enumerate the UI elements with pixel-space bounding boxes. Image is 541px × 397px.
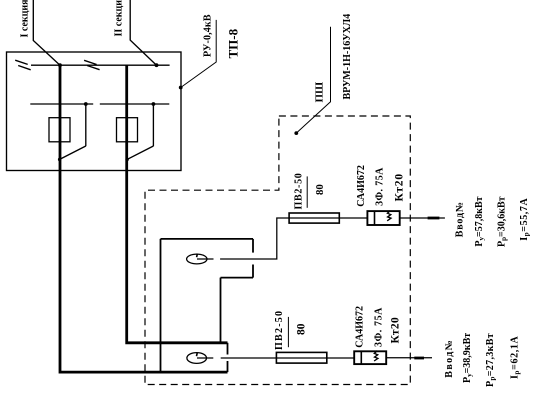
- svg-text:СА4И672: СА4И672: [355, 306, 366, 348]
- svg-text:80: 80: [296, 323, 308, 335]
- switch SA2: [127, 104, 153, 160]
- wire section II entry: [130, 0, 156, 65]
- node lower bus junction 2: [152, 102, 156, 106]
- svg-text:РУ-0,4кВ: РУ-0,4кВ: [203, 14, 214, 57]
- wire lower chain thick end: [414, 357, 424, 360]
- wire upper chain thick end: [428, 217, 440, 220]
- node bus junction 2: [155, 63, 159, 67]
- meter PI2 СА4И672: [354, 351, 386, 364]
- svg-text:Кт20: Кт20: [394, 173, 406, 201]
- node lower bus junction 1: [84, 102, 88, 106]
- label FU2 ПВ2-50/80: [274, 310, 308, 350]
- svg-text:ПШ: ПШ: [314, 82, 326, 103]
- meter PI1 СА4И672: [367, 211, 399, 225]
- fuse FU2 ПВ2-50: [276, 352, 326, 363]
- wire lower bus segment 2: [100, 103, 170, 105]
- node switch SA2 foot: [125, 158, 128, 161]
- panel ВРУ dashed boundary: [145, 116, 410, 385]
- wire feeder 2 thick: [127, 65, 228, 343]
- svg-text:Ввод№: Ввод№: [444, 339, 455, 378]
- wire bus 0,4кВ: [31, 64, 170, 66]
- wire section I entry: [33, 0, 60, 65]
- node leader dot РУ: [179, 86, 183, 90]
- label FU1 ПВ2-50/80: [294, 173, 326, 210]
- wire upper chain: [220, 218, 445, 259]
- wire lower chain: [221, 357, 432, 359]
- svg-text:ПВ2-50: ПВ2-50: [294, 173, 305, 210]
- wire feeder 1 thick: [60, 65, 228, 372]
- svg-text:ТП-8: ТП-8: [226, 28, 241, 58]
- svg-text:Кт20: Кт20: [389, 317, 401, 344]
- disconnector QS2 slashes: [84, 60, 100, 69]
- node bus junction 1: [58, 63, 62, 67]
- transformer CT1 rect: [49, 118, 70, 142]
- disconnector QS1 slashes: [15, 60, 31, 70]
- wire lower bus segment 1: [30, 103, 93, 105]
- svg-text:ПВ2-50: ПВ2-50: [274, 310, 285, 350]
- meter transformer symbol TT1 ellipse: [187, 254, 214, 264]
- svg-text:I секция: I секция: [20, 0, 31, 38]
- switch SA1: [59, 104, 85, 160]
- node switch SA1 foot: [58, 158, 61, 161]
- svg-text:ВРУМ-1Н-16УХЛ4: ВРУМ-1Н-16УХЛ4: [342, 14, 353, 100]
- room wall outline: [161, 239, 254, 372]
- fuse FU1 ПВ2-50: [289, 213, 339, 223]
- wire leader РУ-0,4кВ: [181, 20, 217, 88]
- svg-text:II секция: II секция: [114, 0, 125, 37]
- svg-text:80: 80: [314, 184, 326, 195]
- svg-text:Ввод№: Ввод№: [455, 201, 466, 237]
- svg-text:3Ф. 75А: 3Ф. 75А: [375, 167, 386, 206]
- transformer CT2 rect: [117, 118, 138, 142]
- wire leader ПШ: [296, 27, 330, 133]
- svg-text:3Ф. 75А: 3Ф. 75А: [373, 307, 384, 347]
- meter transformer symbol TT2 ellipse: [187, 353, 213, 364]
- switchgear cabinet РУ-0,4кВ box: [7, 52, 182, 171]
- svg-text:СА4И672: СА4И672: [356, 165, 367, 207]
- node leader dot ПШ: [294, 131, 298, 135]
